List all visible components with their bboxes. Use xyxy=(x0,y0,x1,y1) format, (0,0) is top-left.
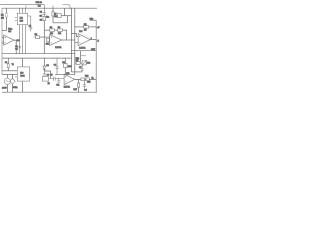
svg-text:4148: 4148 xyxy=(68,66,72,68)
wire R9 out + feedback xyxy=(63,30,67,40)
capacitor C9 xyxy=(43,71,46,75)
wire BR1 top xyxy=(11,74,13,78)
wire R8-R9 xyxy=(55,29,58,31)
svg-text:10k: 10k xyxy=(54,16,57,18)
svg-text:50Hz: 50Hz xyxy=(13,87,17,89)
svg-text:-V: -V xyxy=(97,41,100,43)
wire upper line left xyxy=(0,4,44,6)
op-amp U5 xyxy=(64,74,75,85)
wire R6 input xyxy=(34,36,49,38)
capacitor C4 xyxy=(18,47,21,48)
wire x80.6 drop xyxy=(80,51,82,62)
svg-text:PIN 13: PIN 13 xyxy=(36,2,43,4)
node R12 dot xyxy=(73,25,76,28)
op-amp U3 xyxy=(50,35,62,46)
box B2 xyxy=(64,64,68,68)
resistor R17 xyxy=(78,79,80,83)
box B3 xyxy=(42,77,48,82)
diode D2 wire xyxy=(43,58,45,66)
wire right rail xyxy=(95,20,97,92)
wire out right xyxy=(71,50,96,52)
svg-text:C4: C4 xyxy=(15,46,17,48)
wire G1 top xyxy=(6,74,8,78)
wire mains2 xyxy=(2,73,17,75)
wire T1 top pin xyxy=(22,58,24,67)
IC U1 555 xyxy=(17,13,27,24)
resistor R5 xyxy=(43,17,46,21)
wire vertical bus A xyxy=(70,8,72,72)
wire y71.9 xyxy=(71,71,82,73)
resistor R19 xyxy=(86,78,89,81)
wire R8 input xyxy=(44,29,49,31)
wire 555 left pins xyxy=(15,18,17,21)
capacitor C7 xyxy=(81,65,84,72)
svg-text:C11: C11 xyxy=(56,85,59,87)
capacitor C3 xyxy=(28,16,33,32)
wire 555 bottom pins xyxy=(20,25,26,54)
svg-text:R1: R1 xyxy=(1,15,4,17)
svg-text:1M: 1M xyxy=(1,18,4,20)
svg-text:C9: C9 xyxy=(47,74,49,76)
node U3 out dots xyxy=(65,39,68,42)
svg-text:R4: R4 xyxy=(17,40,19,42)
wire D2 down xyxy=(44,69,50,78)
svg-text:10k: 10k xyxy=(87,63,90,65)
svg-text:R6: R6 xyxy=(35,34,37,36)
svg-text:R17: R17 xyxy=(74,89,77,91)
transformer box T1 xyxy=(17,67,29,81)
wire upper jumper right xyxy=(63,5,71,9)
node jumper dot xyxy=(69,8,70,9)
wire U1 out xyxy=(14,40,16,54)
resistor R14 xyxy=(75,62,76,64)
wire x67.5 drop xyxy=(67,16,69,23)
svg-text:C7: C7 xyxy=(79,67,81,69)
node U5 out dot xyxy=(77,78,80,81)
wire y55.8 xyxy=(81,55,87,57)
svg-text:C6: C6 xyxy=(54,64,56,66)
svg-text:IC2: IC2 xyxy=(38,5,41,7)
wire left rail xyxy=(1,8,3,74)
svg-text:324: 324 xyxy=(8,31,11,33)
svg-text:C2: C2 xyxy=(40,20,42,22)
svg-text:R9: R9 xyxy=(58,27,60,29)
svg-text:C5: C5 xyxy=(50,75,52,77)
capacitor C10 xyxy=(83,81,86,89)
node top junction dots xyxy=(19,8,75,9)
rail mid1 xyxy=(2,53,75,55)
ac source G1 xyxy=(4,78,10,84)
node C5 dot xyxy=(57,77,60,80)
op-amp U4 xyxy=(78,34,90,46)
wire U3 out xyxy=(62,39,75,41)
capacitor C6 xyxy=(56,58,59,75)
resistor R18 xyxy=(81,78,85,81)
resistor R12 xyxy=(84,26,89,28)
svg-text:D2: D2 xyxy=(46,65,48,67)
capacitor C5 xyxy=(49,77,65,81)
resistor R1 xyxy=(5,8,7,30)
tick above bus at 26 xyxy=(25,5,27,8)
wire top bus xyxy=(2,7,97,9)
wire R1 to rail xyxy=(2,30,6,32)
svg-text:LM741: LM741 xyxy=(55,47,62,49)
svg-text:Z1: Z1 xyxy=(48,83,50,85)
wire y22.8 xyxy=(53,22,68,24)
node out dot xyxy=(73,49,76,52)
svg-text:LM741: LM741 xyxy=(64,87,71,89)
wire U5 out xyxy=(75,78,97,80)
svg-text:+V: +V xyxy=(97,27,100,29)
svg-text:IC5: IC5 xyxy=(66,73,69,75)
diode D2 xyxy=(43,66,46,69)
op-amp U1 xyxy=(4,35,14,45)
svg-text:10k: 10k xyxy=(58,33,61,35)
box B1 xyxy=(58,14,62,18)
svg-text:LM741: LM741 xyxy=(79,47,86,49)
resistor R8 xyxy=(50,29,55,31)
wire mains1 xyxy=(2,70,17,72)
svg-text:1M: 1M xyxy=(84,24,87,26)
wire B1 out xyxy=(61,15,71,17)
tick above bus at 53 xyxy=(52,5,54,8)
svg-text:IC4: IC4 xyxy=(79,31,82,33)
trimmer VR1 xyxy=(82,61,86,65)
wire x64.5 drop xyxy=(64,8,66,16)
svg-text:R13: R13 xyxy=(90,18,93,20)
resistor R9 xyxy=(58,29,63,31)
svg-text:1M: 1M xyxy=(84,30,87,32)
fuse F1 xyxy=(7,58,9,64)
svg-text:C3: C3 xyxy=(29,25,31,27)
svg-text:10n: 10n xyxy=(46,17,49,19)
bridge rectifier BR1 xyxy=(10,79,16,85)
wire vertical bus B xyxy=(74,8,76,75)
wire BR1 bottom xyxy=(11,84,13,92)
capacitor gnd xyxy=(57,78,60,82)
node D2 dot xyxy=(43,57,46,60)
svg-text:R19: R19 xyxy=(85,75,88,77)
svg-text:0.1: 0.1 xyxy=(84,89,87,91)
resistor R7 vertical wire xyxy=(52,8,54,23)
svg-text:0.1: 0.1 xyxy=(15,49,18,51)
svg-text:S1: S1 xyxy=(5,62,7,64)
wire G1 bottom xyxy=(6,85,8,93)
svg-text:10k: 10k xyxy=(46,44,49,46)
svg-text:T1: T1 xyxy=(12,64,14,66)
wire T1 bottom pin xyxy=(22,81,24,92)
wire chain down xyxy=(43,21,45,54)
svg-text:230V: 230V xyxy=(2,88,7,90)
wire mains3 xyxy=(15,76,17,78)
svg-text:C1: C1 xyxy=(40,12,42,14)
wire right top xyxy=(90,19,96,21)
wire R12 input xyxy=(75,26,84,28)
resistor R6 xyxy=(36,36,40,39)
svg-text:D3: D3 xyxy=(62,62,64,64)
wire 555 top pins xyxy=(20,8,26,13)
wire U4 out xyxy=(90,39,96,41)
rail mid3 xyxy=(55,74,75,76)
svg-text:R5: R5 xyxy=(40,16,42,18)
capacitor C1 xyxy=(43,5,46,17)
svg-text:C10: C10 xyxy=(87,82,90,84)
rail mid2 xyxy=(2,57,71,59)
wire bottom ground bus xyxy=(2,91,97,93)
svg-text:R8: R8 xyxy=(50,27,52,29)
node R6 dot xyxy=(43,36,46,39)
capacitor C4b xyxy=(46,38,49,41)
wire R12 out xyxy=(89,26,97,28)
svg-text:RL: RL xyxy=(92,78,94,80)
